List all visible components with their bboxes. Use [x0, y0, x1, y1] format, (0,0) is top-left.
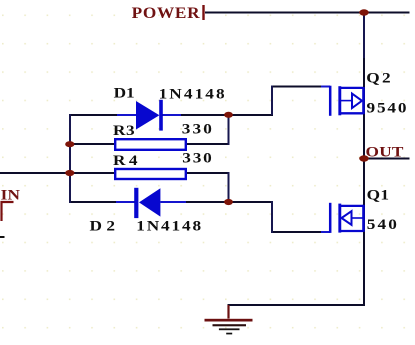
svg-text:R4: R4 — [113, 153, 137, 169]
svg-text:Q2: Q2 — [366, 70, 390, 86]
svg-text:540: 540 — [367, 217, 397, 233]
svg-text:IN: IN — [1, 188, 21, 204]
svg-text:D1: D1 — [114, 86, 135, 102]
svg-text:330: 330 — [182, 121, 212, 137]
svg-text:Q1: Q1 — [367, 187, 389, 203]
svg-text:OUT: OUT — [366, 144, 404, 160]
svg-text:POWER: POWER — [132, 3, 201, 21]
svg-text:9540: 9540 — [367, 100, 407, 116]
svg-text:R3: R3 — [113, 123, 135, 139]
svg-text:330: 330 — [182, 151, 211, 167]
